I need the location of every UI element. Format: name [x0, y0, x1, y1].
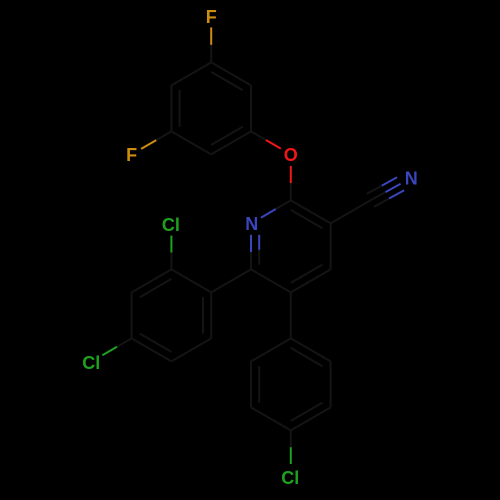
- nitrile C#N triple bond: [367, 177, 404, 207]
- ring D bond C1-C2 (double): [291, 338, 331, 366]
- ring A bond C5-C6 (double): [171, 85, 179, 131]
- svg-text:N: N: [405, 169, 418, 189]
- ring A bond C1-C2 (double): [211, 62, 251, 90]
- pyridine bond C2=C3 (double): [291, 200, 331, 228]
- ring D bond C4-C5: [251, 407, 291, 430]
- bond aryl C-O (ether): [251, 131, 281, 148]
- pyridine bond C5-C6: [251, 269, 291, 292]
- ring B bond C2-C3 (double): [132, 269, 172, 297]
- ring A bond C2-C3: [250, 85, 252, 131]
- bond C3-C(nitrile): [331, 200, 371, 223]
- svg-text:Cl: Cl: [162, 215, 180, 235]
- ring B bond C1-C2: [171, 269, 211, 292]
- ring B bond C4-C5 (double): [132, 334, 172, 362]
- ring B bond C3-C4: [131, 292, 133, 338]
- bond pyridine C5 - chlorophenyl: [290, 292, 292, 338]
- pyridine bond N1-C2: [261, 200, 291, 217]
- ring D bond C5-C6 (double): [251, 361, 259, 407]
- svg-text:O: O: [284, 145, 298, 165]
- bond F1-C (C-F): [210, 27, 212, 62]
- bond C-Cl (para): [102, 338, 131, 355]
- ring B bond C6-C1 (double): [203, 292, 211, 338]
- ring A bond C4-C5: [171, 131, 211, 154]
- pyridine bond C6=N1 (double): [251, 235, 259, 270]
- pyridine bond C4=C5 (double): [291, 265, 331, 293]
- svg-text:Cl: Cl: [281, 468, 299, 488]
- bond F2-C (C-F): [141, 131, 171, 149]
- ring A bond C3-C4 (double): [211, 127, 251, 155]
- pyridine bond C3-C4: [330, 223, 332, 269]
- svg-text:F: F: [206, 7, 217, 27]
- svg-text:F: F: [126, 145, 137, 165]
- svg-text:Cl: Cl: [82, 353, 100, 373]
- bond O-C2 (ether): [290, 166, 292, 201]
- ring D bond C6-C1: [251, 338, 291, 361]
- svg-text:N: N: [245, 214, 258, 234]
- bond C-Cl (ortho): [170, 236, 172, 270]
- ring B bond C5-C6: [171, 338, 211, 361]
- ring D bond C2-C3: [330, 361, 332, 407]
- ring D bond C3-C4 (double): [291, 403, 331, 431]
- bond pyridine C6 - dichlorophenyl: [211, 269, 251, 292]
- ring A bond C6-C1: [171, 62, 211, 85]
- bond C-Cl: [290, 430, 292, 464]
